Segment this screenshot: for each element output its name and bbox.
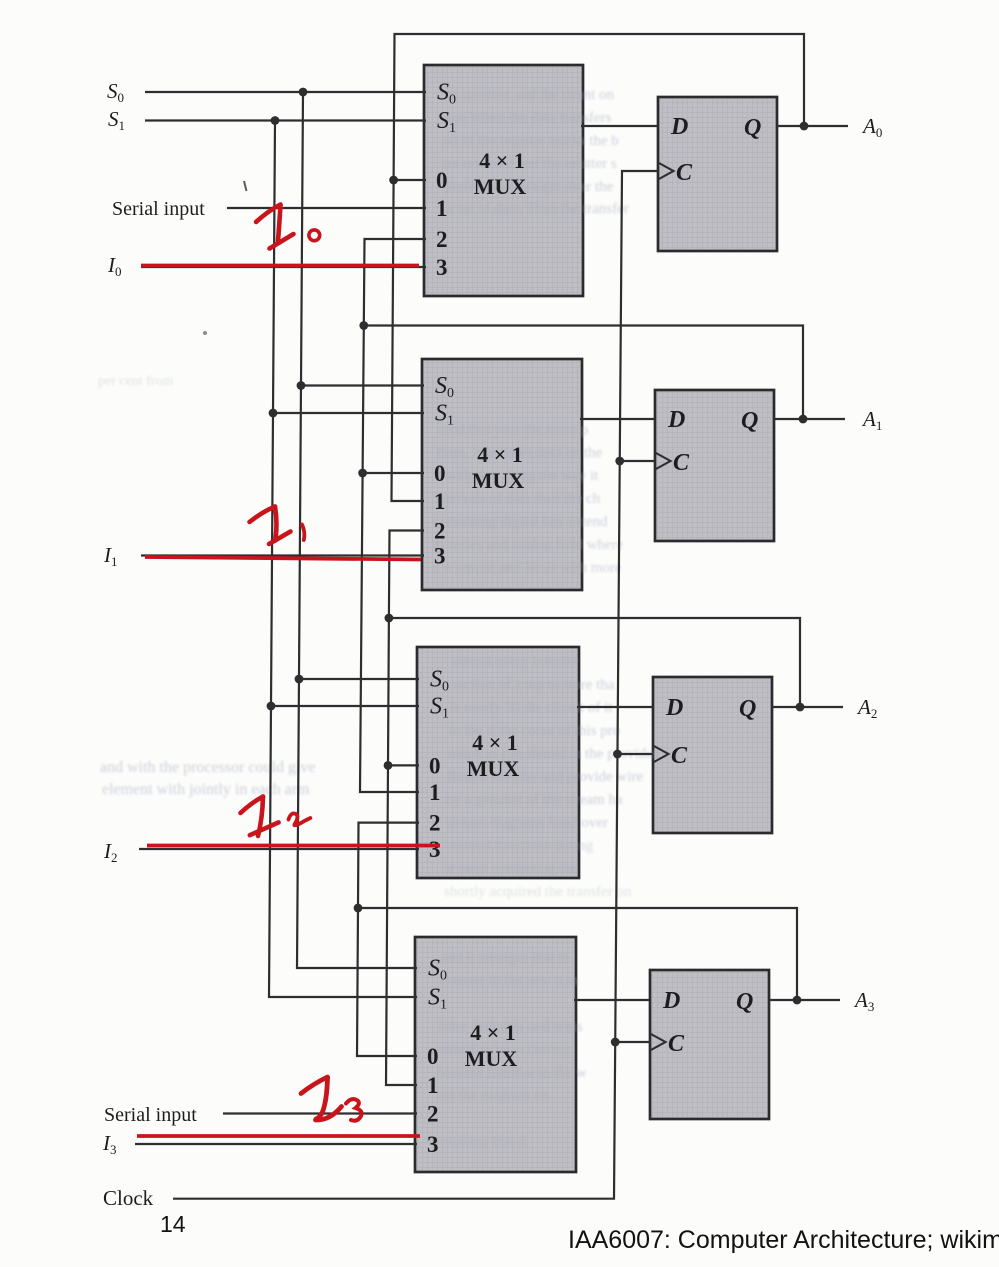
wire A1 feedback: Q1 up, left, vertical to MUX0 pin 2 / MUX1 pin 0 / MUX2 pin 1 <box>364 239 803 419</box>
svg-text:4 × 1: 4 × 1 <box>470 1020 516 1045</box>
svg-text:od of the register marks the b: od of the register marks the b <box>443 133 619 149</box>
wire I2 parallel input line <box>139 848 419 850</box>
svg-text:0: 0 <box>436 168 448 193</box>
svg-text:0: 0 <box>434 461 446 486</box>
wire FF0 Q output to A0 <box>777 125 848 127</box>
svg-text:0: 0 <box>427 1044 439 1069</box>
svg-text:1: 1 <box>427 1073 439 1098</box>
flip-flop FF1 (D flip-flop, output A1) <box>655 390 774 541</box>
wire S1 vertical bus <box>269 121 417 998</box>
svg-text:prefers and straight over the: prefers and straight over the <box>445 179 614 195</box>
wire clock stub to FF1 C input <box>620 460 655 462</box>
svg-text:and with the processor could g: and with the processor could give <box>100 759 316 776</box>
svg-text:im reversed and the emitter s: im reversed and the emitter s <box>443 156 617 172</box>
svg-text:per cent from: per cent from <box>98 374 174 389</box>
wire I1 red marker line <box>145 557 421 560</box>
wire FF3 Q output to A3 <box>769 999 840 1001</box>
svg-text:a set of data. Then the transf: a set of data. Then the transfer <box>447 201 629 217</box>
mux MUX0 (4x1 MUX, stage A0) <box>424 65 583 296</box>
svg-text:in series and analog field whe: in series and analog field where <box>433 537 624 553</box>
node: handwritten red annotation I3 <box>301 1076 362 1121</box>
svg-text:14: 14 <box>160 1211 186 1237</box>
svg-text:I1: I1 <box>103 543 118 569</box>
svg-text:Clock: Clock <box>103 1186 154 1210</box>
svg-text:stream diagrams hand over: stream diagrams hand over <box>446 815 608 831</box>
svg-text:D: D <box>667 407 685 433</box>
node: Q3 output junction <box>793 996 802 1005</box>
svg-text:A3: A3 <box>853 988 874 1014</box>
mux MUX2 (4x1 MUX, stage A2) <box>417 647 579 878</box>
svg-text:I2: I2 <box>103 839 118 865</box>
svg-text:Serial input: Serial input <box>104 1104 197 1126</box>
node: Q2 output junction <box>796 703 805 712</box>
node: Q1 output junction <box>799 415 808 424</box>
svg-text:MUX: MUX <box>465 1046 518 1071</box>
wire I3 red marker line <box>137 1134 420 1138</box>
svg-text:4 × 1: 4 × 1 <box>479 148 525 173</box>
wire serial input (shift left) to MUX3 pin 2 <box>223 1112 417 1114</box>
svg-text:it b reprint and let us with m: it b reprint and let us with more <box>432 560 622 576</box>
svg-text:IAA6007: Computer Architecture: IAA6007: Computer Architecture; wikimedi… <box>568 1226 999 1254</box>
node: A3 feedback junction on wrap line <box>354 904 363 913</box>
node: handwritten red annotation I0 <box>256 205 320 249</box>
stray scan mark (dot) <box>203 331 207 335</box>
wire S1 input line from label to MUX0 <box>145 119 426 121</box>
node: clock junction at FF1 <box>615 457 624 466</box>
flip-flop FF0 (D flip-flop, output A0) <box>658 97 777 251</box>
svg-text:1: 1 <box>429 780 441 805</box>
svg-text:intervals of data then the ch: intervals of data then the ch <box>434 491 601 507</box>
svg-text:section of a top to store tha: section of a top to store tha <box>452 677 615 693</box>
wire S1 branch into MUX2 <box>271 705 419 707</box>
svg-text:D: D <box>665 695 683 721</box>
wire S0 vertical bus <box>297 92 417 968</box>
wire S0 input line from label to MUX0 <box>145 91 426 93</box>
svg-text:MUX: MUX <box>467 756 520 781</box>
svg-text:3: 3 <box>429 837 441 862</box>
node: A1 feedback junction on wrap line <box>359 321 368 330</box>
svg-text:1: 1 <box>434 489 446 514</box>
wire S0 branch into MUX1 <box>301 384 424 386</box>
node: handwritten red annotation I1 <box>250 507 305 545</box>
node: S1 branch junction, MUX1 <box>269 409 278 418</box>
svg-text:3: 3 <box>434 544 446 569</box>
svg-text:S1: S1 <box>108 107 125 133</box>
svg-text:MUX: MUX <box>474 174 527 199</box>
node: A2 feedback junction on wrap line <box>385 614 394 623</box>
flip-flop FF3 (D flip-flop, output A3) <box>650 970 769 1119</box>
flip-flop FF2 (D flip-flop, output A2) <box>653 677 772 833</box>
wire serial input (shift right) to MUX0 pin 1 <box>227 207 426 209</box>
svg-text:0: 0 <box>429 753 441 778</box>
wire A1 branch into MUX1 pin 0 <box>363 472 424 474</box>
pin: FF3 clock edge triangle <box>650 1034 666 1051</box>
wire A0 feedback: Q0 up over top, down to MUX0 pin 0 and MUX1 pin 1 <box>392 34 805 501</box>
wire MUX2 output to FF2 D input <box>577 706 653 708</box>
wire A0 branch into MUX0 pin 0 <box>394 179 426 181</box>
svg-text:element with jointly in each a: element with jointly in each arm <box>102 781 310 798</box>
node: clock junction at FF2 <box>613 750 622 759</box>
node: S0 branch junction, MUX2 <box>295 675 304 684</box>
wire I0 red marker line <box>141 264 419 268</box>
node: clock junction at FF3 <box>611 1038 620 1047</box>
wire I0 parallel input line <box>141 266 426 268</box>
svg-text:C: C <box>671 743 688 769</box>
svg-text:2: 2 <box>434 519 446 544</box>
node: A1 junction at MUX1 pin 0 <box>358 469 367 478</box>
svg-text:Q: Q <box>739 696 756 722</box>
svg-text:C: C <box>673 450 690 476</box>
svg-text:3: 3 <box>427 1132 439 1157</box>
wire I2 red marker line <box>147 844 440 848</box>
svg-text:2: 2 <box>429 811 441 836</box>
node: handwritten red annotation I2 <box>241 797 311 837</box>
svg-text:C: C <box>668 1031 685 1057</box>
wire MUX1 output to FF1 D input <box>580 418 655 420</box>
svg-text:4 × 1: 4 × 1 <box>477 442 523 467</box>
svg-text:resulting that d: resulting that d <box>436 1134 526 1150</box>
svg-text:by a genuine of the stream ha: by a genuine of the stream ha <box>446 792 623 808</box>
node: Q0 output junction <box>800 122 809 131</box>
svg-text:and it emerges that th: and it emerges that th <box>441 950 570 966</box>
wire A2 feedback: Q2 up, left, vertical to MUX1 pin 2 / MUX2 pin 0 / MUX3 pin 1 <box>389 531 800 708</box>
pin: FF0 clock edge triangle <box>658 163 674 180</box>
wire I3 parallel input line <box>135 1143 417 1145</box>
svg-text:counter in the new tran: counter in the new tran <box>440 973 579 989</box>
svg-text:I0: I0 <box>107 253 122 279</box>
svg-text:1: 1 <box>436 196 448 221</box>
wire A3 feedback: Q3 up, left, vertical to MUX2 pin 2 and MUX3 pin 0 <box>358 823 797 1000</box>
svg-text:almost every transfer: almost every transfer <box>452 654 579 670</box>
svg-text:Serial input: Serial input <box>112 198 205 220</box>
mux MUX1 (4x1 MUX, stage A1) <box>422 359 582 590</box>
svg-text:A0: A0 <box>861 114 882 140</box>
svg-text:to receiver and the count on: to receiver and the count on <box>447 87 615 103</box>
svg-text:D: D <box>662 988 680 1014</box>
svg-text:containing digital bits extend: containing digital bits extend <box>433 514 608 530</box>
wire S0 branch into MUX2 <box>299 678 419 680</box>
pin: FF2 clock edge triangle <box>653 746 669 763</box>
node: A0 feedback junction at MUX0 pin 0 <box>389 176 398 185</box>
svg-text:A2: A2 <box>856 695 877 721</box>
svg-text:Q: Q <box>744 115 761 141</box>
svg-text:severed functions during: severed functions during <box>445 838 594 854</box>
wire clock distribution: Clock label up to all FF C inputs <box>173 171 658 1199</box>
svg-text:C: C <box>676 160 693 186</box>
svg-text:A1: A1 <box>861 407 882 433</box>
wire S1 branch into MUX1 <box>273 412 424 414</box>
svg-text:D: D <box>670 114 688 140</box>
background bleed-through ghost text from reverse page side <box>98 87 659 1150</box>
svg-text:4 × 1: 4 × 1 <box>472 730 518 755</box>
node: S0 junction at S0 line <box>299 88 308 97</box>
wire clock stub to FF3 C input <box>615 1041 650 1043</box>
wire FF2 Q output to A2 <box>772 706 843 708</box>
svg-text:I3: I3 <box>102 1131 117 1157</box>
svg-text:shortly acquired the transfer: shortly acquired the transfer on <box>444 884 632 900</box>
node: A2 junction at MUX2 pin 0 <box>384 761 393 770</box>
svg-text:son When the data transfers: son When the data transfers <box>445 110 611 126</box>
svg-text:3: 3 <box>436 255 448 280</box>
wire clock stub to FF2 C input <box>618 753 654 755</box>
svg-text:2: 2 <box>436 227 448 252</box>
wire MUX0 output to FF0 D input <box>581 125 658 127</box>
svg-text:S0: S0 <box>107 79 124 105</box>
svg-text:at most combining the: at most combining the <box>444 861 578 877</box>
svg-text:2: 2 <box>427 1102 439 1127</box>
svg-text:MUX: MUX <box>472 468 525 493</box>
svg-text:send that year the more p: send that year the more p <box>437 422 588 438</box>
wire I1 parallel input line <box>141 554 424 556</box>
svg-text:Q: Q <box>736 989 753 1015</box>
pin: FF1 clock edge triangle <box>655 453 671 470</box>
svg-text:Q: Q <box>741 408 758 434</box>
stray scan mark (apostrophe) <box>244 181 247 191</box>
mux MUX3 (4x1 MUX, stage A3) <box>415 937 576 1172</box>
wire FF1 Q output to A1 <box>774 418 845 420</box>
node: S1 branch junction, MUX2 <box>267 702 276 711</box>
node: S1 junction at S1 line <box>271 116 280 125</box>
node: S0 branch junction, MUX1 <box>297 381 306 390</box>
svg-text:not the diagram on: not the diagram on <box>436 1088 549 1104</box>
wire MUX3 output to FF3 D input <box>574 999 650 1001</box>
wire A2 branch into MUX2 pin 0 <box>388 764 419 766</box>
